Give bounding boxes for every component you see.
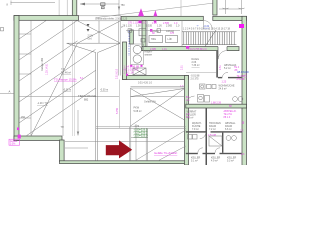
garage interior vertical pair x73	[72, 20, 74, 136]
dimension vertical x119	[118, 0, 120, 16]
left edge dim below	[119, 80, 121, 129]
svg-text:B82: B82	[84, 99, 89, 102]
small circles bottom right	[226, 136, 231, 141]
wall: tank room stub band	[130, 30, 134, 44]
svg-text:1.26: 1.26	[152, 22, 157, 25]
pipe line with fittings	[126, 30, 180, 32]
svg-text:1.26: 1.26	[157, 25, 162, 28]
section marker symbol	[101, 3, 105, 9]
small mark left edge top	[1, 28, 4, 31]
wall: tank room left band	[123, 42, 127, 80]
svg-text:AB DN100: AB DN100	[237, 71, 249, 74]
svg-text:2.51 6.10: 2.51 6.10	[116, 68, 119, 79]
arrowhead top-mid	[80, 3, 85, 6]
svg-text:Sektionaltor elektr. 2.50x2.12: Sektionaltor elektr. 2.50x2.125	[95, 17, 128, 20]
wall: garage bottom	[14, 136, 62, 141]
wall: left lower vertical band	[60, 140, 65, 162]
tech room boxes	[149, 36, 178, 43]
svg-text:-1.59=525.9: -1.59=525.9	[134, 133, 148, 137]
svg-text:TG-Rampe 15.5%: TG-Rampe 15.5%	[54, 78, 77, 82]
fixtures above right band	[198, 95, 210, 103]
svg-text:TH: TH	[61, 126, 64, 129]
svg-text:88 1.0: 88 1.0	[224, 116, 231, 119]
svg-text:2.565: 2.565	[163, 22, 170, 25]
X brace top of garage right	[78, 21, 121, 43]
wall: middle bottom band	[123, 76, 189, 80]
svg-text:HZG: HZG	[151, 38, 156, 41]
thin verticals above garage wall	[58, 0, 60, 16]
small circles right	[233, 97, 238, 102]
magenta bit tech room	[150, 29, 152, 32]
svg-text:Gef.: Gef.	[88, 37, 93, 40]
dimension vertical x181	[180, 0, 182, 16]
svg-text:292: 292	[21, 116, 26, 119]
svg-text:1.23: 1.23	[222, 81, 227, 84]
ramp area lines bottom middle	[65, 124, 186, 161]
svg-text:0.51 4.26 1.0: 0.51 4.26 1.0	[138, 82, 153, 85]
middle room diagonals	[131, 89, 185, 127]
svg-text:2.51: 2.51	[219, 65, 222, 70]
wall: right zone band	[186, 104, 247, 108]
svg-text:1.01: 1.01	[162, 48, 167, 51]
svg-text:2.51: 2.51	[181, 65, 184, 70]
wall: middle-right vertical band	[185, 76, 189, 166]
wall: garage top	[14, 16, 79, 21]
garage rungs left strip	[19, 34, 31, 118]
wall: bottom long band	[60, 161, 187, 164]
A marker left edge	[0, 93, 14, 95]
magenta small mark above	[17, 128, 19, 131]
magenta corner square garage	[18, 135, 21, 139]
svg-text:wasser: wasser	[145, 54, 153, 57]
svg-text:Rampe 15%: Rampe 15%	[41, 57, 44, 71]
svg-text:2.51 88: 2.51 88	[237, 78, 246, 81]
svg-text:28 1.135: 28 1.135	[123, 25, 133, 28]
garage interior vertical x63	[62, 20, 64, 136]
tech room divider	[147, 21, 149, 47]
stair cut line	[205, 30, 216, 47]
red arrow	[106, 140, 132, 158]
svg-text:1.25 14.51: 1.25 14.51	[46, 63, 49, 75]
magenta block at band start	[121, 16, 125, 19]
tanks room outline	[131, 44, 144, 65]
dim arrow garage door	[77, 110, 79, 136]
svg-text:5.2 m²: 5.2 m²	[224, 67, 231, 70]
svg-text:-0.31: -0.31	[204, 25, 210, 28]
magenta block band left end	[186, 46, 189, 49]
garage door opening lines	[79, 16, 122, 21]
staircase	[182, 32, 237, 45]
svg-text:7.2 m²: 7.2 m²	[209, 128, 216, 131]
svg-text:A: A	[9, 90, 11, 94]
wall: garage left	[14, 16, 19, 141]
site boundary diagonal top	[96, 3, 214, 18]
svg-text:7.36 m²: 7.36 m²	[192, 64, 200, 67]
dimension line top-left	[11, 1, 56, 6]
garage long horizontal y96.5	[19, 96, 119, 98]
svg-text:1.01 5.755 88 2.0: 1.01 5.755 88 2.0	[188, 48, 207, 51]
svg-text:Gefälle TG-Zufahrt: Gefälle TG-Zufahrt	[154, 151, 177, 155]
door gap in under-stair band	[218, 46, 227, 52]
svg-text:5.1 m²: 5.1 m²	[191, 160, 198, 163]
wall x217 vertical	[216, 51, 218, 78]
svg-text:4.9 m²: 4.9 m²	[211, 160, 218, 163]
svg-text:24.6 m²: 24.6 m²	[219, 88, 227, 91]
svg-text:Lüftung: Lüftung	[166, 30, 175, 33]
svg-text:2.0 1.14: 2.0 1.14	[124, 71, 135, 75]
garage interior vertical x31	[30, 20, 32, 136]
svg-text:LÜF: LÜF	[168, 38, 173, 41]
svg-text:-1.29 / TG: -1.29 / TG	[37, 102, 48, 105]
door gaps arcs bottom rooms	[200, 133, 206, 139]
symbol stack	[87, 24, 90, 32]
stair left edge	[181, 21, 183, 47]
washer boxes bottom rooms	[188, 135, 223, 147]
svg-text:5.755: 5.755	[116, 107, 119, 114]
svg-text:2.0 375: 2.0 375	[191, 77, 200, 80]
door arc at top wall gap	[203, 21, 212, 30]
svg-text:TG 46 m²: TG 46 m²	[61, 72, 71, 75]
wall: top-right band	[213, 16, 247, 20]
door arc above right band	[187, 96, 195, 104]
svg-text:375 1.135 88 2.0: 375 1.135 88 2.0	[128, 22, 147, 25]
magenta square right top	[239, 24, 244, 28]
wall: mid vertical band (tech room left)	[142, 21, 146, 51]
wall: under-stair band	[142, 47, 239, 51]
wall: right vertical band	[242, 16, 247, 165]
wall y77.5 horizontal	[218, 77, 222, 78]
garage ramp diagonals	[19, 20, 96, 136]
svg-text:-0.31 m: -0.31 m	[63, 89, 71, 92]
thin line y82	[186, 72, 216, 74]
kitchen boxes mid right	[200, 84, 217, 89]
svg-text:2.51 88: 2.51 88	[208, 134, 217, 137]
middle room top double line	[131, 87, 185, 127]
svg-text:-0.30 m: -0.30 m	[100, 89, 108, 92]
svg-text:5.08 m²: 5.08 m²	[134, 110, 142, 113]
wall: top-middle band	[121, 16, 203, 20]
dashed blue vertical	[128, 31, 130, 57]
door arc under stair band	[217, 51, 219, 60]
drain funnel	[67, 43, 121, 161]
magenta door triangles on top wall	[138, 8, 144, 16]
svg-text:1.50: 1.50	[136, 25, 141, 28]
door arc room right	[222, 72, 228, 78]
middle building left edge double line	[119, 21, 121, 76]
hatched box below tanks	[133, 68, 146, 75]
wall: top vertical band upper-left	[72, 0, 77, 16]
tank circle 2	[133, 55, 141, 63]
svg-text:1.88 2.39: 1.88 2.39	[211, 102, 222, 105]
svg-text:6.6 m²: 6.6 m²	[225, 128, 232, 131]
svg-text:+-: +-	[197, 25, 199, 28]
svg-text:750: 750	[121, 4, 126, 7]
top-right dimension lines	[219, 0, 242, 14]
svg-text:2.0%: 2.0%	[10, 143, 16, 146]
svg-text:TIEFGARAGE: TIEFGARAGE	[78, 94, 96, 98]
dimension line top-mid	[80, 3, 119, 5]
magenta label box bottom-left	[9, 139, 20, 145]
wall: bay vertical band	[213, 0, 217, 15]
svg-text:Gefälle 2%: Gefälle 2%	[144, 101, 157, 104]
tank circle 1	[133, 45, 141, 53]
bottom right rooms walls	[206, 108, 208, 165]
svg-text:5.3 m²: 5.3 m²	[227, 160, 234, 163]
svg-text:7.9 m²: 7.9 m²	[192, 128, 199, 131]
